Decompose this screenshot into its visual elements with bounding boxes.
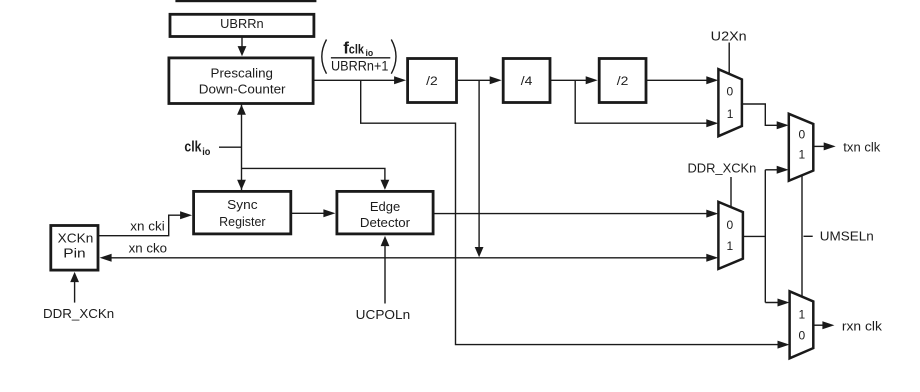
svg-text:DDR_XCKn: DDR_XCKn: [43, 306, 114, 321]
svg-text:Detector: Detector: [360, 215, 411, 230]
svg-text:UCPOLn: UCPOLn: [356, 307, 411, 322]
svg-text:xn cki: xn cki: [130, 219, 165, 234]
svg-text:1: 1: [799, 308, 806, 322]
svg-text:io: io: [366, 48, 374, 59]
svg-text:Edge: Edge: [370, 199, 400, 214]
svg-text:Pin: Pin: [63, 245, 85, 260]
svg-text:1: 1: [727, 239, 734, 253]
svg-text:clk: clk: [184, 139, 202, 156]
svg-text:Down-Counter: Down-Counter: [199, 82, 286, 97]
svg-text:UBRRn+1: UBRRn+1: [331, 58, 388, 73]
svg-text:0: 0: [727, 218, 734, 232]
svg-text:0: 0: [727, 85, 734, 99]
svg-text:U2Xn: U2Xn: [711, 28, 747, 43]
svg-text:1: 1: [799, 148, 806, 162]
svg-text:rxn clk: rxn clk: [842, 319, 883, 334]
svg-text:xn cko: xn cko: [129, 240, 167, 255]
svg-text:clk: clk: [349, 43, 364, 57]
svg-text:/4: /4: [521, 76, 533, 88]
svg-text:0: 0: [799, 328, 806, 342]
svg-text:/2: /2: [617, 76, 629, 88]
svg-text:Register: Register: [219, 214, 266, 229]
svg-text:XCKn: XCKn: [58, 231, 94, 246]
svg-text:txn clk: txn clk: [843, 139, 881, 154]
svg-text:/2: /2: [426, 76, 438, 88]
svg-text:DDR_XCKn: DDR_XCKn: [687, 161, 756, 176]
svg-text:1: 1: [727, 107, 734, 121]
svg-text:UMSELn: UMSELn: [820, 229, 874, 244]
svg-text:io: io: [202, 146, 210, 158]
svg-text:Prescaling: Prescaling: [211, 66, 273, 81]
svg-text:0: 0: [799, 127, 806, 141]
svg-text:Sync: Sync: [227, 197, 258, 212]
svg-text:UBRRn: UBRRn: [220, 16, 264, 31]
